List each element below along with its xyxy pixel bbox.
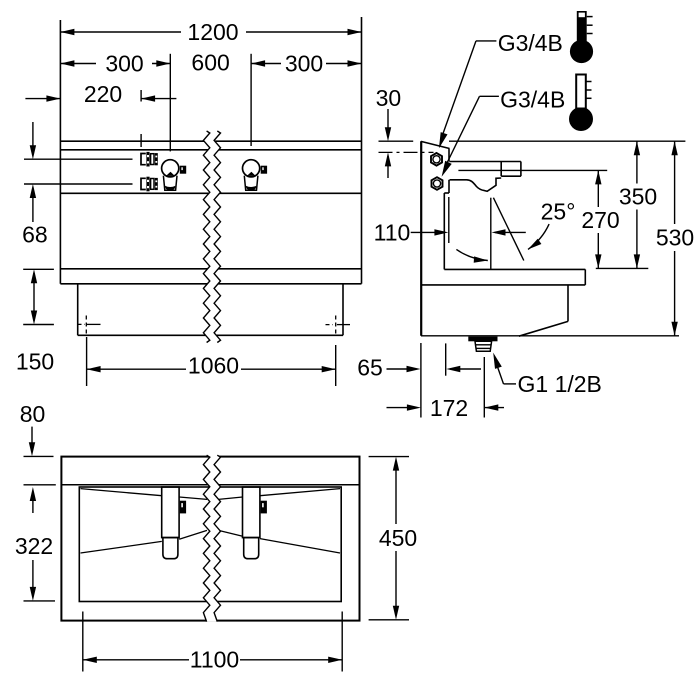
svg-text:68: 68: [22, 222, 48, 248]
svg-text:220: 220: [84, 81, 122, 107]
svg-text:1100: 1100: [190, 647, 239, 673]
svg-text:1200: 1200: [187, 19, 238, 45]
svg-text:150: 150: [16, 349, 54, 375]
svg-text:300: 300: [285, 51, 323, 77]
svg-text:65: 65: [357, 355, 383, 381]
svg-text:450: 450: [379, 525, 417, 551]
svg-text:600: 600: [191, 50, 229, 76]
svg-text:530: 530: [656, 225, 694, 251]
svg-text:350: 350: [619, 184, 657, 210]
svg-text:322: 322: [15, 533, 53, 559]
svg-text:G3/4B: G3/4B: [500, 87, 565, 113]
svg-text:G1 1/2B: G1 1/2B: [518, 371, 602, 397]
svg-text:1060: 1060: [188, 353, 239, 379]
svg-text:25°: 25°: [541, 199, 576, 225]
svg-text:80: 80: [20, 401, 46, 427]
svg-text:110: 110: [374, 220, 411, 246]
svg-text:172: 172: [430, 395, 468, 421]
svg-text:G3/4B: G3/4B: [498, 30, 563, 56]
svg-text:300: 300: [105, 51, 143, 77]
svg-text:270: 270: [581, 207, 619, 233]
svg-text:30: 30: [376, 85, 402, 111]
